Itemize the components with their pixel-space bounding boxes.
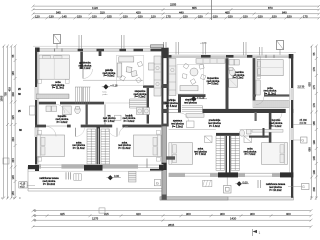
- svg-text:ned plocica: ned plocica: [184, 102, 197, 105]
- right unit stair walls: [178, 94, 206, 112]
- gallery rug: [116, 56, 144, 86]
- right dimension line 1: [310, 45, 313, 200]
- svg-text:P= 3.6m2: P= 3.6m2: [124, 120, 135, 123]
- text stepenice right: [184, 99, 197, 105]
- svg-text:150: 150: [272, 14, 277, 18]
- svg-text:300: 300: [250, 212, 255, 216]
- radiator box room 2: [244, 136, 252, 143]
- svg-text:175: 175: [312, 85, 316, 90]
- top wall right unit: [169, 53, 296, 59]
- bottom dimension numbers: [60, 212, 291, 227]
- hall box: [115, 115, 122, 120]
- text soba top-right: [264, 87, 277, 96]
- svg-text:755: 755: [4, 92, 8, 97]
- svg-text:130: 130: [312, 170, 316, 175]
- svg-text:155: 155: [11, 191, 15, 196]
- left dimension line 2: [6, 45, 9, 200]
- right hall boxes: [187, 121, 195, 128]
- level marker right unit: [190, 95, 207, 101]
- bottom dimension line 2: [32, 214, 313, 217]
- right terrace level marker: [235, 180, 249, 186]
- kitchen strip right unit: [169, 59, 176, 96]
- svg-text:1505: 1505: [0, 95, 4, 101]
- svg-text:poda: poda: [103, 94, 109, 96]
- text stepenice left: [134, 90, 147, 99]
- left terrace steps hatch: [129, 172, 137, 183]
- top dimension line 2: [32, 8, 320, 11]
- left dimension line 3: [10, 45, 13, 200]
- left terrace box: [74, 174, 82, 181]
- text predsoblje: [208, 119, 221, 128]
- terrace step bar bottom right unit: [160, 197, 293, 200]
- text soba bottom-left 1: [72, 141, 85, 150]
- left terrace bottom edge: [28, 167, 162, 192]
- svg-text:1: 1: [259, 231, 261, 235]
- svg-text:150: 150: [138, 14, 143, 18]
- svg-text:150: 150: [92, 14, 97, 18]
- right unit chairs: [182, 63, 206, 84]
- counter along top wall right unit: [196, 59, 225, 64]
- bottom right tiny marks: [311, 196, 316, 200]
- svg-text:425: 425: [60, 212, 65, 216]
- svg-text:P= 2.5m2: P= 2.5m2: [172, 125, 183, 128]
- svg-text:200: 200: [312, 187, 316, 192]
- svg-text:+ 0.16: + 0.16: [197, 95, 205, 99]
- svg-text:G: G: [301, 139, 304, 143]
- left unit gallery wall: [80, 52, 83, 69]
- svg-text:315: 315: [104, 212, 109, 216]
- svg-text:2.5 30: 2.5 30: [298, 85, 305, 88]
- text soba bottom-right 1: [194, 148, 207, 157]
- right dimension line 2: [315, 45, 318, 200]
- svg-text:P= 9.6m2: P= 9.6m2: [104, 75, 115, 78]
- svg-text:P= 1.5m2: P= 1.5m2: [104, 120, 115, 123]
- left bottom rooms dividing wall: [97, 126, 101, 166]
- svg-text:240: 240: [11, 92, 15, 97]
- room top boundary lines right unit: [169, 129, 216, 131]
- column symbol above right top wall: [277, 41, 284, 55]
- text soba bottom-right 2: [244, 148, 257, 157]
- bottom left tiny figures: [1, 196, 21, 200]
- bed bottom-right room 1: [169, 143, 193, 165]
- left wall small texts: [18, 88, 22, 132]
- right bath door leaf: [255, 112, 257, 121]
- right unit bedroom wall top: [253, 58, 256, 100]
- svg-text:P= 5.2m2: P= 5.2m2: [135, 96, 146, 99]
- top dimension line 1: [32, 5, 320, 8]
- left unit mid wall: [35, 125, 161, 128]
- text kupatilo left: [56, 115, 69, 124]
- text garderoba: [79, 62, 92, 71]
- right unit stairs horizontal hatch: [182, 106, 203, 111]
- left terrace text: [39, 177, 59, 186]
- svg-text:545: 545: [56, 10, 61, 14]
- svg-text:150: 150: [213, 14, 218, 18]
- svg-text:P= 11.2m2: P= 11.2m2: [264, 93, 277, 96]
- right bedroom wardrobe hatch: [253, 101, 289, 108]
- right dimension numbers: [307, 52, 316, 191]
- left exterior wall: [30, 48, 39, 171]
- text soba top-left: [52, 81, 65, 90]
- closets bottom right rooms: [186, 114, 204, 118]
- right terrace leader box: [288, 184, 309, 190]
- svg-text:G: G: [156, 181, 159, 186]
- svg-text:170: 170: [312, 103, 316, 108]
- svg-text:655: 655: [192, 6, 197, 10]
- wardrobe top-right room: [256, 80, 260, 95]
- svg-text:175: 175: [303, 14, 308, 18]
- right unit rug: [177, 65, 203, 95]
- svg-text:P= 11.3m2: P= 11.3m2: [52, 87, 65, 90]
- text kupaonica right mid: [207, 77, 220, 86]
- text spavaca right: [171, 120, 184, 129]
- bed bottom-right room 2: [262, 143, 288, 165]
- right terrace doormat: [203, 180, 212, 186]
- text glavna kupaonica: [232, 71, 245, 80]
- central dividing wall upper: [161, 48, 168, 127]
- left dim small box: [3, 158, 9, 164]
- svg-text:P= 10.2m2: P= 10.2m2: [269, 189, 282, 192]
- kitchen strip left unit: [149, 56, 162, 96]
- svg-text:420: 420: [136, 212, 141, 216]
- text hodnik: [123, 114, 136, 123]
- svg-text:215: 215: [11, 158, 15, 163]
- door leaf room 2: [116, 128, 118, 137]
- svg-text:+2.80: +2.80: [200, 41, 207, 45]
- left terrace step marks: [66, 172, 71, 179]
- top dimension line 3: [32, 12, 320, 15]
- gallery edge line: [83, 79, 143, 81]
- svg-text:P= 11.3m2: P= 11.3m2: [73, 147, 86, 150]
- right terrace hanging box: [224, 178, 232, 194]
- left unit wall stub top: [99, 50, 102, 56]
- bathroom side wall stub: [86, 104, 88, 124]
- right terrace edge posts: [258, 180, 261, 188]
- right closet hatch 1: [216, 136, 225, 171]
- svg-text:1120: 1120: [92, 6, 98, 10]
- right leader label box 2: [294, 137, 308, 143]
- svg-text:150: 150: [123, 14, 128, 18]
- svg-text:150: 150: [198, 14, 203, 18]
- vent pipes above walls: [79, 35, 262, 56]
- left dimension numbers: [0, 54, 15, 195]
- svg-text:400: 400: [286, 212, 291, 216]
- bottom dimension line 1: [32, 208, 313, 213]
- svg-text:P= 7.0m2: P= 7.0m2: [195, 153, 206, 156]
- right terrace text: [266, 183, 286, 192]
- svg-text:1420: 1420: [230, 217, 237, 221]
- svg-text:145: 145: [312, 156, 316, 161]
- svg-text:310: 310: [100, 10, 105, 14]
- svg-text:655: 655: [307, 82, 311, 87]
- svg-text:P= 11.3m2: P= 11.3m2: [118, 147, 131, 150]
- washing machines hall: [137, 108, 150, 115]
- left bottom corner block: [28, 165, 39, 169]
- text wc left: [103, 114, 116, 123]
- svg-text:150: 150: [77, 14, 82, 18]
- svg-text:170: 170: [312, 67, 316, 72]
- left unit stair wall: [143, 85, 161, 123]
- svg-text:2815: 2815: [168, 223, 175, 227]
- left leader label box: [19, 182, 35, 189]
- bed top-right bedroom: [257, 57, 283, 79]
- svg-text:2255: 2255: [170, 3, 177, 7]
- svg-text:P= 10.2m2: P= 10.2m2: [43, 183, 56, 186]
- stub wall right room1: [166, 156, 175, 159]
- right unit mid wall: [169, 109, 294, 113]
- wardrobe hatch strip left bedroom: [36, 94, 69, 99]
- svg-text:2.5 30: 2.5 30: [300, 122, 307, 125]
- left unit bathroom top wall: [39, 102, 147, 105]
- right small label y86: [298, 85, 306, 88]
- right unit dining table: [190, 68, 198, 76]
- svg-text:P= 2.1m2: P= 2.1m2: [80, 67, 91, 70]
- svg-text:300: 300: [186, 212, 191, 216]
- svg-text:210: 210: [11, 137, 15, 142]
- left door leaf: [146, 159, 148, 168]
- svg-text:120: 120: [151, 14, 156, 18]
- svg-text:155: 155: [107, 14, 112, 18]
- gallery sofa: [117, 57, 134, 77]
- right leader text y124: [294, 119, 312, 125]
- svg-text:P= 4.2m2: P= 4.2m2: [271, 125, 282, 128]
- svg-text:175: 175: [166, 14, 171, 18]
- svg-text:0.00: 0.00: [243, 180, 249, 184]
- left unit stairs horizontal hatch: [130, 99, 147, 108]
- central dividing wall lower: [162, 126, 167, 199]
- svg-text:150: 150: [228, 14, 233, 18]
- svg-text:870: 870: [268, 6, 273, 10]
- svg-text:145: 145: [11, 175, 15, 180]
- left dimension line 1: [2, 45, 5, 200]
- svg-text:150: 150: [258, 14, 263, 18]
- section marker 1: [253, 229, 261, 236]
- svg-text:+0.0: +0.0: [20, 186, 25, 189]
- left closet hatch 2: [101, 129, 110, 165]
- right unit bath wall vertical: [226, 58, 229, 109]
- bed diagonal crease: [39, 55, 50, 66]
- left unit bedroom bottom wall: [28, 164, 163, 171]
- wc divider wall: [104, 104, 106, 124]
- door leaf room 1: [75, 128, 77, 137]
- gallery chairs: [120, 61, 143, 83]
- door arcs: [46, 69, 282, 136]
- svg-text:165: 165: [11, 71, 15, 76]
- svg-text:150: 150: [183, 14, 188, 18]
- svg-text:120: 120: [35, 14, 40, 18]
- right bath tub: [252, 130, 283, 133]
- svg-text:185: 185: [312, 121, 316, 126]
- svg-text:P= 5.8m2: P= 5.8m2: [208, 83, 219, 86]
- svg-text:+ 0.16: + 0.16: [110, 83, 118, 87]
- right unit bedroom bottom wall: [169, 172, 294, 177]
- right mid bathroom fixtures: [229, 60, 239, 88]
- right exterior wall: [289, 54, 293, 198]
- bed top-left bedroom: [38, 55, 70, 83]
- svg-text:P= 5.6m2: P= 5.6m2: [166, 105, 177, 108]
- left unit stairs vertical hatch: [75, 87, 91, 104]
- text soba bottom-left 2: [118, 141, 131, 150]
- svg-text:190: 190: [312, 140, 316, 145]
- top dimension numbers: [35, 3, 308, 19]
- bottom dimension line 3: [32, 219, 313, 222]
- svg-text:225: 225: [11, 115, 15, 120]
- svg-text:300: 300: [220, 212, 225, 216]
- svg-text:660: 660: [307, 147, 311, 152]
- top center axis line: [211, 0, 213, 20]
- right unit sofa: [180, 86, 198, 91]
- WC fixtures: [240, 130, 252, 137]
- level marker gallery: [102, 83, 118, 95]
- left terrace level marker: [107, 174, 121, 180]
- left dimension line 4: [14, 45, 17, 200]
- gallery tables: [126, 67, 137, 77]
- svg-text:150: 150: [243, 14, 248, 18]
- text kuhinja right: [165, 99, 178, 108]
- right closet hatch 2: [231, 136, 240, 171]
- svg-text:410: 410: [7, 87, 11, 92]
- text galerija: [103, 69, 116, 78]
- svg-text:130: 130: [49, 14, 54, 18]
- pipes above central wall: [164, 42, 167, 48]
- svg-text:150: 150: [287, 14, 292, 18]
- top dimension line 4: [32, 16, 320, 19]
- right bottom rooms dividing wall: [216, 133, 240, 173]
- WC dividing walls right unit: [249, 136, 269, 138]
- bottom dimension line 4: [32, 225, 313, 228]
- left closet hatch 1: [87, 129, 96, 165]
- right unit wall y95: [253, 94, 290, 96]
- svg-text:145: 145: [62, 14, 67, 18]
- top wall left unit: [33, 45, 164, 52]
- column symbol above left top wall: [54, 35, 61, 49]
- left bathroom fixtures: [46, 106, 80, 115]
- text kupatilo right: [270, 119, 283, 128]
- svg-text:P= 4.6m2: P= 4.6m2: [209, 125, 220, 128]
- radiator box room 1: [205, 136, 213, 143]
- svg-text:1275: 1275: [92, 217, 99, 221]
- left terrace G box: [154, 180, 161, 186]
- svg-text:0.00: 0.00: [114, 174, 120, 178]
- bed bottom-left room 1: [37, 131, 65, 162]
- right unit bathroom wall bottom strip: [269, 113, 272, 143]
- svg-text:P= 4.6m2: P= 4.6m2: [57, 121, 68, 124]
- bed bottom-left room 2: [134, 131, 162, 162]
- svg-text:P= 7.0m2: P= 7.0m2: [245, 153, 256, 156]
